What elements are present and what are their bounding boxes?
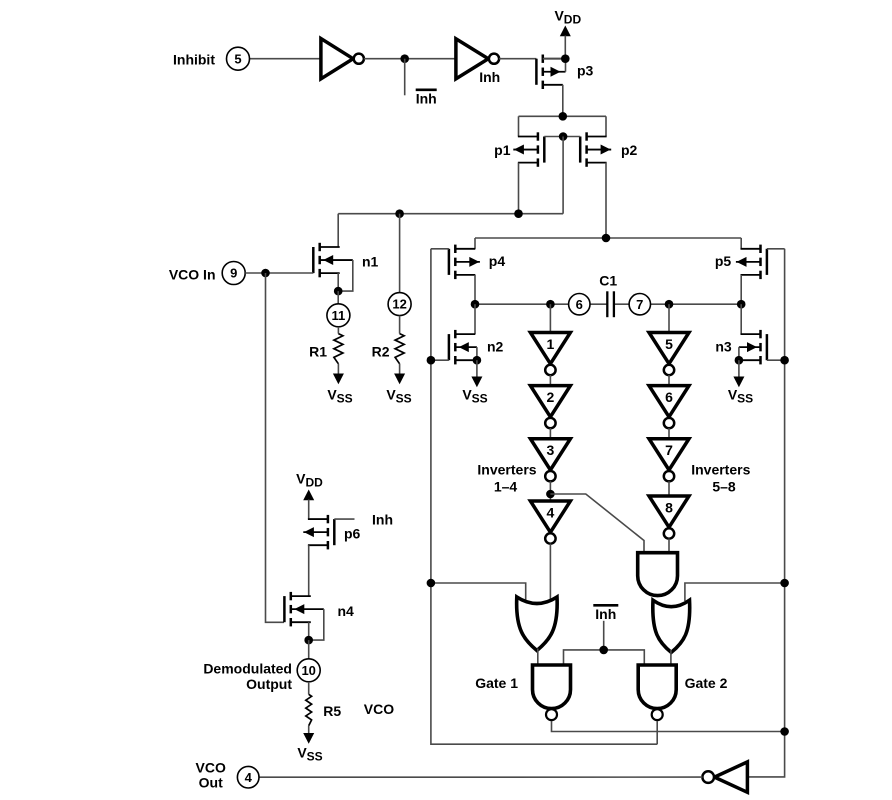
node: p4 drain / node 6 bbox=[471, 300, 480, 309]
inverter 1 bbox=[530, 333, 570, 376]
wire: R1 to VSS arrow bbox=[337, 364, 339, 374]
wire: Inhibit pin to first inverter bbox=[250, 58, 321, 60]
pin 11 (R1) bbox=[337, 291, 339, 304]
node: n3 gate on right rail bbox=[780, 356, 789, 365]
node: p2 drain on box top rail bbox=[602, 234, 611, 243]
svg-text:C1: C1 bbox=[599, 273, 617, 289]
svg-text:n3: n3 bbox=[715, 339, 732, 355]
wire: p2 gate lead to common gate node bbox=[563, 136, 580, 138]
transistor p6 bbox=[303, 515, 334, 550]
svg-text:Gate 2: Gate 2 bbox=[685, 675, 728, 691]
svg-text:p6: p6 bbox=[344, 526, 361, 542]
wire: gates node down to mirror rail bbox=[562, 137, 564, 214]
svg-text:VCO In: VCO In bbox=[169, 266, 216, 282]
transistor p5 bbox=[736, 245, 767, 280]
bubble U1 bbox=[354, 54, 364, 64]
wire: n1 drain up to mirror rail bbox=[337, 214, 339, 247]
svg-text:p2: p2 bbox=[621, 142, 638, 158]
svg-text:7: 7 bbox=[665, 442, 673, 458]
resistor R1 bbox=[334, 334, 343, 364]
resistor R2 bbox=[395, 334, 404, 364]
power VDD (top) bbox=[554, 7, 581, 58]
pin 9 (VCO In) bbox=[222, 262, 245, 285]
and-gate (pulse gate) bbox=[638, 553, 678, 596]
inverter 6 bbox=[649, 386, 689, 429]
wire: p3 source to VDD node bbox=[543, 58, 566, 60]
inverter 5 bbox=[649, 333, 689, 376]
node: p1/p2 common gates bbox=[559, 132, 568, 141]
bubble U3 bbox=[702, 771, 714, 783]
wire: inverter 8 output down to AND gate bbox=[668, 539, 670, 557]
wire: p4 gate to left feedback rail bbox=[431, 248, 449, 250]
wire: p1/p2 source rail bbox=[519, 115, 607, 117]
svg-text:Inh: Inh bbox=[372, 512, 393, 528]
svg-text:Out: Out bbox=[199, 775, 223, 791]
node p3 source / VDD bbox=[561, 54, 570, 63]
bubble U2 bbox=[489, 54, 499, 64]
svg-text:2: 2 bbox=[547, 389, 555, 405]
wire: diagonal from inverter 3/4 node to AND gate input bbox=[550, 494, 644, 556]
svg-text:Output: Output bbox=[246, 676, 292, 692]
node: inverter 1 input tap bbox=[546, 300, 555, 309]
wire: inverter 4 output down to OR gate A bbox=[549, 544, 551, 606]
wire: pin 9 to n1 gate bbox=[245, 272, 313, 274]
wire: Inh-bar line to Gate1/Gate2 inputs bbox=[564, 650, 645, 665]
pin 12 (R2) bbox=[388, 293, 411, 316]
wire: n3 bulk tie down to source node bbox=[738, 347, 740, 360]
svg-text:Demodulated: Demodulated bbox=[203, 661, 292, 677]
inverter 8 bbox=[649, 496, 689, 539]
transistor n1 bbox=[313, 243, 353, 277]
wire: U3 output to pin 4 bbox=[259, 776, 702, 778]
wire: right feedback rail (p5/n3 gates to Gate 1 output) bbox=[747, 249, 784, 777]
svg-text:6: 6 bbox=[665, 389, 673, 405]
wire: p4 drain down to C1 node bbox=[474, 275, 476, 304]
svg-text:4: 4 bbox=[547, 504, 555, 520]
node: p5 drain / node 7 bbox=[737, 300, 746, 309]
wire: mirror rail down to pin 12 bbox=[399, 214, 401, 293]
svg-text:12: 12 bbox=[392, 297, 406, 312]
ground VSS (n2) bbox=[462, 360, 487, 405]
wire: p6 drain down to n4 drain bbox=[308, 545, 310, 596]
node: n3 source bbox=[735, 356, 744, 365]
transistor n3 bbox=[739, 330, 767, 365]
wire: source rail left drop to p1 bbox=[518, 116, 520, 136]
nand Gate 1 bbox=[533, 665, 571, 720]
wire: inverter 2 to 3 bbox=[549, 428, 551, 439]
transistor p3 bbox=[536, 55, 565, 90]
node: VCO In junction bbox=[261, 269, 270, 278]
node: R2 branch junction bbox=[395, 209, 404, 218]
node: p1 drain junction bbox=[514, 209, 523, 218]
svg-text:Inh: Inh bbox=[479, 69, 500, 85]
pin 6 (C1A) bbox=[569, 294, 590, 315]
svg-text:p4: p4 bbox=[489, 253, 506, 269]
svg-text:7: 7 bbox=[636, 297, 643, 312]
svg-text:5: 5 bbox=[234, 51, 241, 66]
wire: long rail from VCO In node down to n4 gate bbox=[266, 273, 285, 622]
capacitor C1 bbox=[607, 291, 614, 317]
svg-text:p3: p3 bbox=[577, 63, 594, 79]
svg-text:Inh: Inh bbox=[595, 606, 616, 622]
node Inh-bar junction bbox=[400, 54, 409, 63]
wire: p6 gate lead (Inh) bbox=[334, 518, 354, 520]
wire: C1 node down to inverter 5 bbox=[668, 304, 670, 332]
node: inverter 3/4 junction bbox=[546, 490, 555, 499]
label Inverters 5-8 bbox=[691, 462, 750, 495]
svg-text:R2: R2 bbox=[372, 344, 390, 360]
wire: n3 gate to right rail bbox=[767, 359, 785, 361]
node: n2 source bbox=[473, 356, 482, 365]
wire: node down to pin 10 bbox=[308, 640, 310, 659]
wire: inverter 3 to 4 bbox=[549, 481, 551, 501]
wire: p1 gate lead to common gate node bbox=[544, 136, 563, 138]
inverter 7 bbox=[649, 439, 689, 482]
wire: current mirror rail (n1 drain to p1 gate/drain) bbox=[338, 213, 563, 215]
wire: pin 11 to R1 bbox=[337, 327, 339, 334]
svg-text:10: 10 bbox=[301, 663, 315, 678]
inverter 4 bbox=[530, 501, 570, 544]
svg-text:n2: n2 bbox=[487, 339, 504, 355]
wire: p3 drain down to p1/p2 source rail bbox=[562, 85, 564, 117]
wire: p5 gate to right feedback rail bbox=[767, 248, 785, 250]
ground VSS (n3) bbox=[728, 360, 753, 405]
inverter 2 bbox=[530, 386, 570, 429]
wire: Gate 2 output to left rail bbox=[656, 721, 658, 744]
wire: right rail to OR gate B input bbox=[685, 583, 785, 601]
wire: U2 output to p3 gate bbox=[499, 58, 536, 60]
svg-text:5–8: 5–8 bbox=[712, 479, 736, 495]
wire: p1 drain down to mirror rail bbox=[518, 163, 520, 214]
svg-text:6: 6 bbox=[576, 297, 583, 312]
node: n1 source bbox=[334, 287, 343, 296]
transistor p4 bbox=[449, 245, 480, 280]
ground VSS (R2) bbox=[386, 374, 411, 406]
node: Gate 1 output on right rail bbox=[780, 727, 789, 736]
wire: n1 bulk loop to source node bbox=[338, 260, 353, 291]
pin 5 (Inhibit) bbox=[227, 47, 250, 70]
node: Inh-bar junction (bottom) bbox=[599, 646, 608, 655]
wire: source rail right drop to p2 bbox=[605, 116, 607, 136]
svg-text:1–4: 1–4 bbox=[494, 479, 518, 495]
wire: n4 source down to node 10 bbox=[308, 622, 310, 640]
wire: inverter 6 to 7 bbox=[668, 428, 670, 439]
svg-text:5: 5 bbox=[665, 336, 673, 352]
svg-text:R1: R1 bbox=[309, 344, 327, 360]
ground VSS (R5) bbox=[297, 733, 322, 764]
wire: C1 node line left half bbox=[475, 303, 607, 305]
svg-text:Inverters: Inverters bbox=[477, 462, 536, 478]
wire: p4 source up to box rail bbox=[474, 238, 476, 249]
wire: inverter 1 to 2 bbox=[549, 375, 551, 386]
label Inh-bar (top) bbox=[416, 90, 437, 107]
label VCO Out bbox=[196, 760, 226, 791]
svg-text:8: 8 bbox=[665, 499, 673, 515]
transistor n4 bbox=[284, 592, 323, 627]
power VDD (p6) bbox=[296, 471, 323, 520]
pin 10 (Demodulated Output) bbox=[297, 659, 320, 682]
wire: n3 drain up to C1 node bbox=[740, 304, 742, 334]
wire: OR A output to Gate 1 bbox=[537, 649, 539, 666]
inverter U1 (inhibit buffer 1) bbox=[321, 39, 353, 79]
wire: inverter 7 to 8 bbox=[668, 481, 670, 496]
wire: C1 node down to inverter 1 bbox=[549, 304, 551, 332]
wire: n4 bulk loop to source node bbox=[309, 609, 324, 640]
node: OR B input on right rail bbox=[780, 579, 789, 588]
node: p3 drain junction on source rail bbox=[559, 112, 568, 121]
wire: left feedback rail (p4/n2 gates to Gate 2 output) bbox=[431, 249, 657, 744]
wire: R2 to VSS arrow bbox=[399, 364, 401, 374]
wire: n2 drain up to C1 node bbox=[474, 304, 476, 334]
wire: p3 bulk tie to source bbox=[565, 59, 567, 72]
svg-text:p5: p5 bbox=[715, 253, 732, 269]
wire: p5 drain down to C1 node bbox=[740, 275, 742, 304]
wire: p5 source up to box rail bbox=[740, 238, 742, 249]
transistor p1 bbox=[513, 132, 544, 167]
transistor n2 bbox=[449, 330, 477, 365]
wire: VCO box top rail bbox=[475, 237, 741, 239]
wire: C1 node line right half bbox=[613, 303, 741, 305]
svg-text:n4: n4 bbox=[338, 603, 355, 619]
wire: stub down to Inh-bar label bbox=[404, 59, 406, 96]
svg-text:p1: p1 bbox=[494, 142, 511, 158]
svg-text:VCO: VCO bbox=[196, 760, 226, 776]
svg-text:1: 1 bbox=[547, 336, 555, 352]
node: n2 gate on left rail bbox=[427, 356, 436, 365]
svg-text:11: 11 bbox=[332, 308, 346, 323]
pin 7 (C1B) bbox=[629, 294, 650, 315]
nand Gate 2 bbox=[638, 665, 676, 720]
wire: p2 drain down to VCO box top rail bbox=[605, 163, 607, 238]
or-gate B bbox=[653, 600, 690, 652]
svg-text:4: 4 bbox=[245, 770, 253, 785]
wire: inverter 5 to 6 bbox=[668, 375, 670, 386]
pin 4 (VCO Out) bbox=[237, 766, 259, 788]
inverter 3 bbox=[530, 439, 570, 482]
wire: Gate 1 output to right rail bbox=[552, 721, 785, 732]
svg-text:Inh: Inh bbox=[416, 91, 437, 107]
wire: n2 gate to left rail bbox=[431, 359, 449, 361]
wire: pin 12 to R2 bbox=[399, 316, 401, 334]
wire: n2 bulk tie down to source node bbox=[476, 347, 478, 360]
wire: Inh-bar stub down bbox=[603, 621, 605, 650]
svg-text:n1: n1 bbox=[362, 254, 379, 270]
output inverter U3 (VCO out) bbox=[714, 762, 747, 792]
label Inverters 1-4 bbox=[477, 462, 536, 495]
wire: pin 10 to R5 bbox=[308, 682, 310, 695]
wire: VDD to p6 source bbox=[309, 518, 328, 520]
svg-text:Inverters: Inverters bbox=[691, 462, 750, 478]
label Demodulated Output bbox=[203, 661, 292, 693]
ground VSS (R1) bbox=[327, 374, 352, 406]
resistor R5 bbox=[306, 694, 312, 726]
svg-text:VCO: VCO bbox=[364, 701, 394, 717]
svg-text:3: 3 bbox=[547, 442, 555, 458]
label Inh-bar (bottom) bbox=[593, 605, 618, 622]
wire: OR B output to Gate 2 bbox=[670, 650, 672, 665]
wire: left rail to OR gate A input bbox=[431, 583, 526, 606]
wire: n1 source down to node 11 bbox=[337, 273, 339, 291]
transistor p2 bbox=[580, 132, 611, 167]
svg-text:R5: R5 bbox=[323, 703, 341, 719]
svg-text:9: 9 bbox=[230, 266, 237, 281]
node: inverter 5 input tap bbox=[665, 300, 674, 309]
node: OR A input on left rail bbox=[427, 579, 436, 588]
wire: R5 to VSS arrow bbox=[308, 726, 310, 734]
svg-text:Inhibit: Inhibit bbox=[173, 51, 215, 67]
wire: U1 output to U2 input bbox=[364, 58, 456, 60]
node: n4 source / demodulated output bbox=[304, 636, 313, 645]
inverter U2 (inhibit buffer 2) bbox=[456, 39, 488, 79]
svg-text:Gate 1: Gate 1 bbox=[475, 675, 518, 691]
or-gate A bbox=[517, 597, 558, 651]
